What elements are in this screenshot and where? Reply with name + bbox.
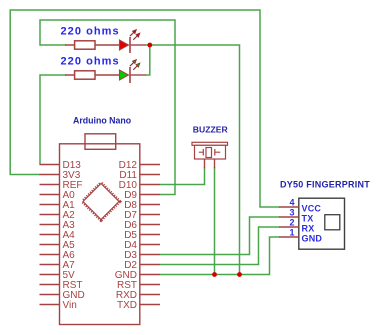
Arduino IC chip diamond <box>83 184 119 220</box>
wire net D2 to DY50 RX <box>160 227 280 265</box>
LED D1 red <box>120 30 146 53</box>
wire net D9 to resistor R1 inner loop <box>40 20 175 195</box>
DY50 pin labels <box>302 204 323 244</box>
Arduino left pin leads <box>40 165 60 305</box>
DY50 module U2 box <box>299 198 345 249</box>
svg-text:BUZZER: BUZZER <box>193 125 229 135</box>
svg-text:4: 4 <box>289 198 294 208</box>
svg-text:RX: RX <box>302 224 315 234</box>
svg-text:VCC: VCC <box>302 204 322 214</box>
junction dot LED GND <box>237 272 242 277</box>
LED D2 green <box>120 60 146 83</box>
DY50 pin numbers <box>289 198 294 238</box>
svg-text:Vin: Vin <box>63 300 77 311</box>
resistor R2 220 ohms <box>65 71 120 79</box>
wire GND rail to DY50 GND <box>160 237 280 275</box>
svg-text:1: 1 <box>289 228 294 238</box>
svg-text:3: 3 <box>289 208 294 218</box>
wire LED cathodes junction to GND rail <box>146 45 240 275</box>
buzzer name label <box>193 125 229 135</box>
DY50 FINGERPRINT name label <box>280 180 370 190</box>
wire net D13 to resistor R2 <box>40 75 66 165</box>
Arduino Nano name label <box>73 116 132 126</box>
wire net D3 to DY50 TX <box>160 217 280 255</box>
svg-text:220 ohms: 220 ohms <box>61 26 120 38</box>
wire green LED cathode up to junction <box>146 45 150 75</box>
buzzer SG1 body <box>192 142 228 159</box>
resistor R1 value label <box>61 26 120 38</box>
DY50 pin leads <box>279 207 299 237</box>
wire buzzer right leg to GND rail <box>214 167 216 275</box>
svg-text:TX: TX <box>302 214 314 224</box>
svg-text:Arduino Nano: Arduino Nano <box>73 116 132 126</box>
wire net D10 to buzzer left leg <box>160 167 205 185</box>
Arduino left pin labels <box>63 160 85 311</box>
svg-text:220 ohms: 220 ohms <box>61 56 120 68</box>
wire net 3V3 to VCC outer loop <box>10 10 279 207</box>
buzzer legs <box>205 159 215 168</box>
Arduino right pin leads <box>140 165 160 305</box>
Arduino Nano U1 body <box>60 134 140 325</box>
junction dot buzzer GND <box>212 272 217 277</box>
svg-text:2: 2 <box>289 218 294 228</box>
svg-text:GND: GND <box>302 234 323 244</box>
junction dot at LED cathodes <box>147 43 152 48</box>
resistor R2 value label <box>61 56 120 68</box>
svg-text:TXD: TXD <box>117 300 137 311</box>
resistor R1 220 ohms <box>65 41 120 49</box>
svg-text:DY50 FINGERPRINT: DY50 FINGERPRINT <box>280 180 370 190</box>
Arduino right pin labels <box>115 160 138 311</box>
